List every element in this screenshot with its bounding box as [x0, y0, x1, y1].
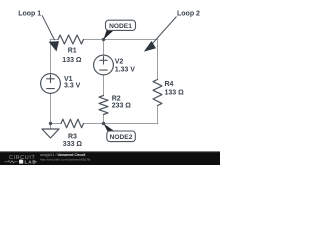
svg-text:R1: R1: [68, 47, 77, 54]
wire left rail lower: [50, 93, 52, 123]
svg-text:http://circuitlab.com/c/pbkamh: http://circuitlab.com/c/pbkamh85q76r: [40, 157, 91, 161]
svg-text:Loop 2: Loop 2: [177, 10, 200, 17]
svg-text:V2: V2: [115, 58, 124, 65]
voltage source V2: [94, 55, 114, 75]
wire left rail upper: [50, 39, 52, 74]
wire bottom between NODE2 and R3: [84, 123, 104, 125]
wire right rail upper: [157, 39, 159, 80]
wire bottom right segment: [104, 123, 159, 125]
loop 1 annotation arrow: [42, 15, 55, 40]
wire middle top (NODE1 to V2): [103, 40, 105, 56]
svg-text:Loop 1: Loop 1: [18, 10, 41, 17]
ground stub wire: [50, 124, 52, 130]
svg-text:133 Ω: 133 Ω: [62, 57, 82, 64]
voltage source V1: [41, 74, 61, 94]
bar top highlight: [0, 151, 220, 153]
ground: [42, 129, 59, 138]
loop 2 annotation arrow: [152, 17, 177, 45]
svg-text:NODE2: NODE2: [110, 134, 133, 141]
wire right rail lower: [157, 106, 159, 125]
CircuitLab logo icon: [19, 160, 23, 164]
wire top-left segment: [50, 39, 58, 41]
wire bottom between R3 and left junction: [50, 123, 61, 125]
node NODE1 label: [104, 31, 114, 40]
node NODE2 label: [104, 124, 115, 132]
svg-text:1.33 V: 1.33 V: [115, 67, 136, 74]
svg-text:andyjsl11 / Unnamed Circuit: andyjsl11 / Unnamed Circuit: [40, 153, 86, 157]
svg-text:3.3 V: 3.3 V: [64, 83, 81, 90]
junction dot NODE1: [102, 38, 105, 41]
svg-text:333 Ω: 333 Ω: [63, 141, 83, 148]
svg-text:233 Ω: 233 Ω: [112, 102, 132, 109]
junction dot NODE2: [102, 122, 105, 125]
wire middle between V2 and R2: [103, 75, 105, 96]
svg-text:R4: R4: [165, 81, 174, 88]
resistor R2: [99, 96, 108, 115]
svg-text:R3: R3: [68, 133, 77, 140]
footer bar: [0, 151, 220, 165]
resistor R1: [58, 35, 84, 44]
svg-text:133 Ω: 133 Ω: [165, 90, 185, 97]
resistor R4: [153, 80, 162, 106]
wire top from R1 to right corner through NODE1: [84, 39, 159, 41]
svg-text:R2: R2: [112, 95, 121, 102]
svg-text:NODE1: NODE1: [109, 23, 132, 30]
wire middle below R2: [103, 115, 105, 124]
resistor R3: [61, 119, 84, 128]
junction dot left (ground/R3): [49, 122, 52, 125]
CircuitLab logo zigzag: [5, 161, 18, 163]
